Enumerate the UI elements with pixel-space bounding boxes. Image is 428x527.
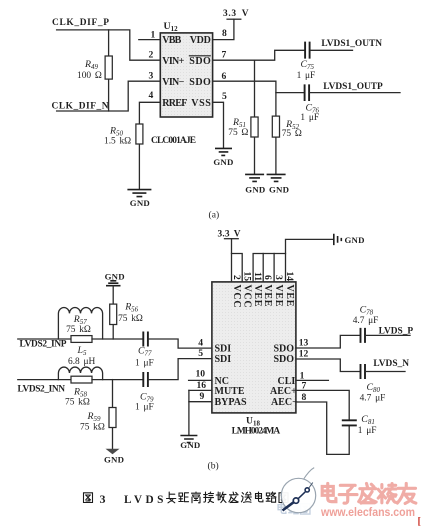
wire C79 to SDI-bar pin5 (148, 359, 212, 380)
caption char 图 (84, 493, 93, 503)
resistor R50 body (136, 124, 143, 144)
svg-text:LVDS1_OUTN: LVDS1_OUTN (321, 39, 382, 49)
ground under BYPAS (180, 436, 197, 443)
svg-text:VEE: VEE (273, 285, 284, 308)
svg-text:8: 8 (302, 392, 307, 403)
inductor L6 (58, 367, 102, 380)
svg-text:13: 13 (299, 337, 309, 348)
capacitor C77 (143, 332, 148, 347)
svg-text:3: 3 (149, 71, 154, 82)
ground under VSS (215, 148, 232, 155)
pin 1 stub VBB (139, 39, 161, 41)
svg-text:R56: R56 (124, 302, 138, 314)
wire C80 to LVDS_N (365, 371, 405, 373)
svg-text:11: 11 (252, 272, 263, 281)
svg-text:LVDS2_INP: LVDS2_INP (20, 340, 67, 350)
caption char 长 (167, 492, 176, 503)
svg-text:CLC001AJE: CLC001AJE (151, 136, 196, 146)
svg-text:75 kΩ: 75 kΩ (118, 314, 143, 324)
svg-text:AEC−: AEC− (271, 397, 298, 408)
watermark logo faint blue text (278, 503, 310, 514)
svg-text:CLK_DIF_N: CLK_DIF_N (52, 101, 109, 111)
svg-text:SDO: SDO (274, 354, 295, 365)
svg-text:(a): (a) (209, 210, 220, 221)
svg-text:1 μF: 1 μF (135, 403, 154, 413)
wire LVDS2_INP (18, 338, 71, 340)
pin 4 stub RREF (139, 102, 160, 124)
svg-text:C78: C78 (360, 305, 374, 317)
svg-text:9: 9 (200, 391, 205, 402)
chip U18 body (212, 282, 296, 413)
capacitor C76 (305, 84, 310, 101)
svg-text:LVDS: LVDS (124, 494, 165, 506)
svg-text:10: 10 (196, 368, 206, 379)
svg-text:75 Ω: 75 Ω (282, 129, 302, 139)
svg-text:3.3 V: 3.3 V (223, 9, 249, 19)
wire pin6 SDO out (213, 81, 305, 92)
wire pin7 SDO-bar out (213, 50, 305, 60)
svg-text:GND: GND (130, 198, 150, 208)
wire R58 to C79 (92, 379, 143, 381)
wire AEC- pin8 loop (296, 402, 349, 454)
svg-text:GND: GND (180, 440, 200, 450)
pin 9 stub BYPAS (189, 401, 212, 403)
svg-text:C77: C77 (138, 346, 152, 358)
caption char 接 (204, 492, 214, 503)
svg-text:1 μF: 1 μF (135, 358, 154, 368)
svg-text:CLK_DIF_P: CLK_DIF_P (52, 18, 109, 28)
wire VEE rail (253, 254, 285, 282)
ground under R51 (245, 174, 264, 181)
svg-text:SDI: SDI (215, 343, 232, 354)
svg-text:12: 12 (299, 349, 309, 360)
svg-text:R59: R59 (87, 411, 101, 423)
ground arrow under R59 (106, 449, 120, 454)
wire 3.3V to VDD pin 8 (213, 19, 234, 39)
svg-text:6: 6 (262, 275, 273, 280)
svg-text:C81: C81 (361, 414, 375, 426)
svg-text:VEE: VEE (262, 285, 273, 308)
wire R57 to C77 (92, 338, 143, 340)
svg-text:SDO: SDO (274, 343, 295, 354)
svg-text:LVDS_N: LVDS_N (373, 359, 409, 369)
svg-text:GND: GND (104, 455, 124, 465)
wire LVDS2_INN (18, 379, 71, 381)
svg-text:6.8 μH: 6.8 μH (68, 357, 95, 367)
svg-text:75 kΩ: 75 kΩ (65, 398, 90, 408)
svg-text:16: 16 (197, 380, 207, 391)
svg-text:VEE: VEE (284, 285, 295, 308)
svg-text:5: 5 (198, 348, 203, 359)
svg-text:VDD: VDD (190, 35, 211, 46)
caption char 收 (216, 492, 226, 503)
svg-text:SDI: SDI (215, 354, 232, 365)
svg-text:VBB: VBB (162, 35, 181, 46)
svg-text:BYPAS: BYPAS (215, 397, 247, 408)
svg-text:75 kΩ: 75 kΩ (66, 325, 91, 335)
svg-text:4.7 μF: 4.7 μF (360, 393, 386, 403)
svg-text:1 μF: 1 μF (297, 71, 316, 81)
svg-text:AEC+: AEC+ (270, 386, 297, 397)
capacitor C80 (361, 364, 366, 379)
resistor R57 body (series) (71, 336, 92, 343)
wire CLK_DIF_N to VIN- (57, 81, 161, 111)
svg-text:4: 4 (149, 90, 154, 101)
op-amp U1 chip U12 body (160, 33, 212, 117)
svg-text:SDO: SDO (189, 56, 211, 67)
svg-text:100 Ω: 100 Ω (77, 71, 102, 81)
svg-text:1 μF: 1 μF (300, 113, 319, 123)
wire VSS pin5 to ground (213, 102, 224, 148)
svg-text:SDO: SDO (189, 77, 211, 88)
svg-text:3: 3 (273, 275, 284, 280)
resistor R58 body (series) (71, 376, 92, 383)
svg-text:VCC: VCC (241, 285, 252, 309)
svg-text:GND: GND (269, 184, 289, 194)
caption char 电 (256, 492, 263, 502)
caption char 送 (241, 492, 251, 502)
resistor R49 leads (108, 30, 110, 56)
svg-text:75 Ω: 75 Ω (228, 128, 248, 138)
svg-text:LVDS2_INN: LVDS2_INN (18, 385, 66, 395)
svg-text:75 kΩ: 75 kΩ (80, 423, 105, 433)
svg-text:GND: GND (245, 184, 265, 194)
svg-text:(b): (b) (208, 461, 219, 472)
wire SDO pin13 to C78 (296, 335, 360, 348)
svg-text:5: 5 (222, 91, 227, 102)
inductor L5 (58, 307, 102, 339)
svg-text:14: 14 (284, 272, 295, 282)
pin 10 stub NC (189, 379, 212, 381)
svg-text:VIN−: VIN− (162, 77, 184, 88)
wire SDO pin12 to C80 (296, 359, 360, 372)
svg-text:3.3 V: 3.3 V (218, 229, 241, 239)
capacitor C79 (143, 372, 148, 387)
wire C77 to SDI pin4 (148, 339, 212, 348)
watermark logo circle (303, 468, 314, 480)
svg-text:VSS: VSS (191, 98, 211, 109)
caption char 距 (179, 493, 189, 502)
resistor R56 leads + body (112, 286, 114, 304)
svg-text:6: 6 (222, 71, 227, 82)
svg-text:7: 7 (302, 380, 307, 391)
svg-text:VEE: VEE (252, 285, 263, 308)
pin 16 stub MUTE (189, 389, 212, 391)
svg-text:U12: U12 (164, 21, 179, 33)
resistor R49 body (105, 56, 112, 79)
svg-text:4: 4 (198, 337, 203, 348)
watermark 电子发烧友 (pale red) (322, 484, 416, 504)
svg-text:2: 2 (231, 275, 242, 280)
svg-text:LVDS_P: LVDS_P (379, 326, 414, 336)
svg-text:LMH0024MA: LMH0024MA (232, 427, 281, 437)
wire C75 to LVDS1_OUTN (311, 49, 353, 51)
svg-text:LVDS1_OUTP: LVDS1_OUTP (323, 82, 383, 92)
svg-text:GND: GND (213, 157, 233, 167)
svg-text:2: 2 (149, 50, 154, 61)
resistor R52 lead + body (275, 93, 277, 117)
resistor R50 chain (138, 144, 140, 189)
resistor R51 lead + body (254, 60, 256, 117)
svg-text:3: 3 (100, 492, 106, 506)
svg-text:VIN+: VIN+ (162, 56, 184, 67)
pin 1 stub CLI (296, 379, 329, 381)
watermark logo nodes (283, 502, 294, 510)
svg-text:L5: L5 (77, 345, 87, 357)
svg-text:R49: R49 (84, 59, 98, 71)
svg-text:4.7 μF: 4.7 μF (353, 316, 379, 326)
svg-text:1 μF: 1 μF (358, 426, 377, 436)
wire VCC rail (231, 239, 233, 282)
wire MUTE/BYPAS to ground (188, 390, 190, 435)
resistor R59 leads + body (112, 380, 114, 408)
svg-text:MUTE: MUTE (215, 386, 245, 397)
caption char 图 (partially hidden) (279, 493, 288, 503)
chip U18 power pin labels VCC VCC VEE VEE VEE VEE (rotated) (231, 285, 295, 309)
svg-text:VCC: VCC (231, 285, 242, 309)
wire C78 to LVDS_P (365, 334, 410, 336)
svg-text:15: 15 (241, 272, 252, 282)
svg-text:GND: GND (345, 235, 365, 245)
ground under R50 (127, 190, 151, 197)
wire C76 to LVDS1_OUTP (310, 92, 400, 94)
svg-text:1: 1 (151, 29, 156, 40)
ground sideways (b top right) (334, 234, 342, 245)
capacitor C75 (305, 42, 310, 59)
caption char 发 (229, 492, 238, 503)
svg-text:RREF: RREF (162, 98, 187, 109)
caption char 离 (192, 492, 201, 503)
top pin numbers 2 15 11 6 3 14 (rotated) (231, 272, 295, 282)
svg-text:C80: C80 (367, 382, 381, 394)
capacitor C81 (vertical) (342, 420, 357, 425)
wire CLK_DIF_P to VIN+ (57, 30, 161, 60)
caption: 图3 LVDS长距离接收发送电路 (84, 493, 93, 503)
capacitor C78 (361, 328, 366, 343)
svg-text:8: 8 (222, 28, 227, 39)
svg-text:www.elecfans.com: www.elecfans.com (320, 505, 415, 519)
svg-text:1.5 kΩ: 1.5 kΩ (104, 136, 131, 146)
svg-text:C75: C75 (301, 59, 315, 71)
caption char 路 (266, 492, 276, 502)
ground under R52 (267, 174, 286, 181)
svg-text:7: 7 (222, 49, 227, 60)
wire AEC+ pin7 to C81 (296, 390, 349, 420)
svg-text:[: [ (418, 517, 422, 527)
